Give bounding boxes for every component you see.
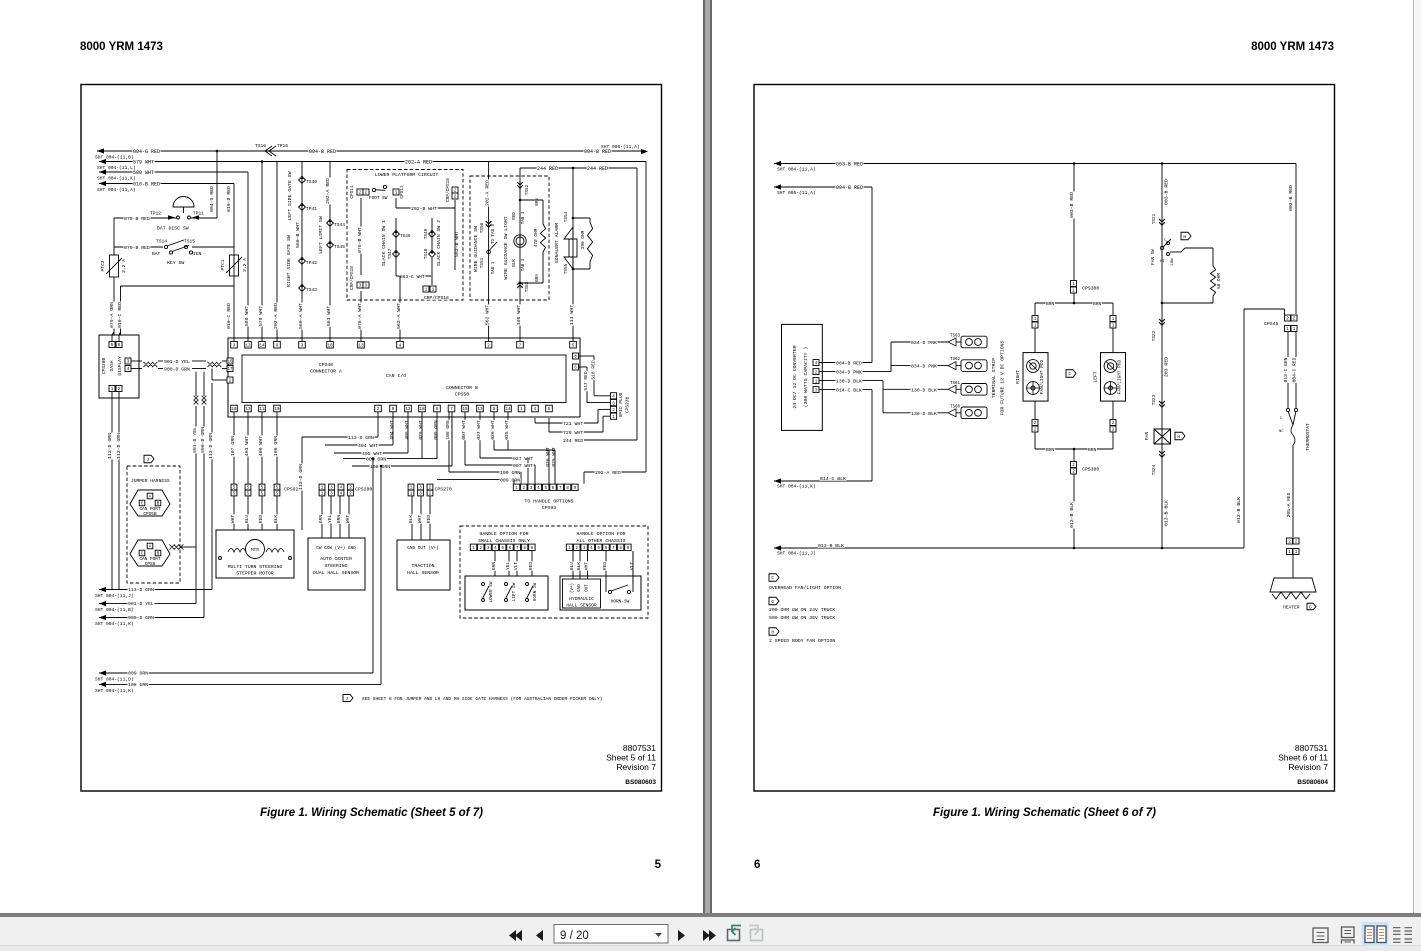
svg-text:STEERING: STEERING	[324, 563, 347, 569]
svg-text:RED: RED	[426, 515, 432, 524]
svg-text:004-B RED: 004-B RED	[836, 361, 862, 367]
svg-text:BLK: BLK	[576, 562, 582, 571]
svg-text:HEATER: HEATER	[1283, 605, 1300, 611]
svg-text:111 WHT: 111 WHT	[569, 305, 575, 325]
svg-text:TS16: TS16	[255, 143, 266, 149]
svg-text:TS23: TS23	[1152, 394, 1157, 405]
svg-text:007 WHT: 007 WHT	[461, 420, 467, 440]
svg-text:SHT 004-(11,D): SHT 004-(11,D)	[95, 677, 134, 683]
svg-text:405 WHT: 405 WHT	[404, 420, 410, 440]
svg-text:TS62: TS62	[950, 358, 961, 362]
svg-text:113-D GRN: 113-D GRN	[348, 435, 374, 441]
svg-text:009 ORN: 009 ORN	[433, 420, 439, 440]
svg-text:LOWER PLATFORM CIRCUIT: LOWER PLATFORM CIRCUIT	[375, 172, 438, 178]
svg-text:PTC2: PTC2	[100, 260, 106, 271]
svg-text:027 WHT: 027 WHT	[476, 420, 482, 440]
svg-text:FAN/LIGHT POD: FAN/LIGHT POD	[1118, 360, 1123, 395]
svg-text:108 GRN: 108 GRN	[445, 420, 451, 440]
svg-text:SHT 005-(11,A): SHT 005-(11,A)	[777, 190, 816, 196]
svg-text:TS22: TS22	[1152, 330, 1157, 341]
svg-text:500 OHM 8W ON 36V TRUCK: 500 OHM 8W ON 36V TRUCK	[769, 615, 835, 621]
svg-text:15: 15	[462, 408, 468, 412]
svg-text:BRN: BRN	[536, 274, 540, 282]
svg-text:561 WHT: 561 WHT	[326, 306, 332, 326]
svg-text:CPS11: CPS11	[400, 185, 405, 199]
svg-text:107 GRN: 107 GRN	[230, 436, 236, 456]
svg-text:202-A RED: 202-A RED	[595, 470, 621, 476]
svg-text:202-A RED: 202-A RED	[325, 178, 331, 204]
svg-text:SLACK CHAIN SW 1: SLACK CHAIN SW 1	[381, 220, 387, 266]
svg-text:079-A ORN: 079-A ORN	[109, 302, 115, 328]
svg-text:405 WHT: 405 WHT	[362, 451, 382, 457]
svg-text:WHT: WHT	[230, 515, 236, 524]
svg-text:HALL SENSOR: HALL SENSOR	[407, 570, 439, 576]
svg-text:2.2 A: 2.2 A	[242, 258, 248, 272]
svg-text:CPS300: CPS300	[1082, 467, 1099, 473]
svg-text:KEY SW: KEY SW	[167, 260, 184, 266]
svg-text:CPS300: CPS300	[1082, 286, 1099, 292]
svg-text:BRN: BRN	[536, 198, 540, 206]
svg-text:50 OHM: 50 OHM	[1217, 273, 1222, 289]
svg-text:TAB 1: TAB 1	[492, 261, 496, 274]
svg-text:AUTO CENTER: AUTO CENTER	[320, 556, 352, 562]
svg-text:014-C BLK: 014-C BLK	[836, 388, 862, 394]
svg-text:RED: RED	[528, 562, 534, 571]
svg-text:401 WHT: 401 WHT	[244, 436, 250, 456]
svg-text:SHT 004-(11,K): SHT 004-(11,K)	[95, 688, 134, 694]
svg-text:TS61: TS61	[950, 382, 961, 386]
svg-text:2.2 A: 2.2 A	[121, 259, 127, 273]
svg-text:580 WHT: 580 WHT	[133, 170, 154, 176]
svg-text:390 OHM: 390 OHM	[581, 230, 586, 249]
svg-text:MULTI TURN STEERING: MULTI TURN STEERING	[228, 564, 283, 570]
svg-text:TS46: TS46	[400, 234, 411, 239]
svg-text:CPS270: CPS270	[435, 487, 452, 493]
svg-text:J: J	[146, 457, 149, 463]
svg-text:720 WHT: 720 WHT	[563, 430, 583, 436]
svg-text:579 WHT: 579 WHT	[258, 306, 264, 326]
svg-text:9 / 20: 9 / 20	[560, 930, 589, 942]
svg-text:TS60: TS60	[950, 405, 961, 409]
svg-text:562 WHT: 562 WHT	[485, 305, 491, 325]
svg-text:SMALL CHASSIS ONLY: SMALL CHASSIS ONLY	[478, 538, 530, 544]
svg-text:TP16: TP16	[277, 143, 288, 149]
svg-text:Revision 7: Revision 7	[616, 762, 656, 772]
svg-text:079-B RED: 079-B RED	[124, 216, 150, 222]
svg-text:YEL: YEL	[505, 562, 511, 571]
svg-text:004-B RED: 004-B RED	[309, 149, 336, 155]
svg-text:CPS11: CPS11	[350, 185, 355, 199]
svg-text:TS43: TS43	[306, 287, 317, 293]
svg-text:SHT 004-(11,B): SHT 004-(11,B)	[95, 607, 134, 613]
svg-text:721 WHT: 721 WHT	[563, 421, 583, 427]
svg-text:009 ORN: 009 ORN	[128, 671, 148, 677]
svg-text:CPS23B: CPS23B	[625, 396, 631, 413]
svg-text:CPS93: CPS93	[542, 505, 557, 511]
svg-text:H: H	[771, 629, 774, 635]
svg-text:2 SPEED BODY FAN OPTION: 2 SPEED BODY FAN OPTION	[769, 638, 835, 644]
svg-text:SHT 004-(11,K): SHT 004-(11,K)	[777, 484, 816, 490]
svg-text:TERMINAL STRIP: TERMINAL STRIP	[991, 358, 997, 398]
svg-text:HORN-SW: HORN-SW	[611, 600, 630, 605]
svg-text:TS47: TS47	[388, 248, 393, 259]
svg-text:TS45: TS45	[334, 244, 345, 250]
svg-text:SHT 006-(11,A): SHT 006-(11,A)	[601, 144, 640, 150]
svg-text:BRN: BRN	[1046, 447, 1055, 453]
svg-text:Sheet 6 of 11: Sheet 6 of 11	[1278, 753, 1328, 763]
svg-text:SHT 004-(11,A): SHT 004-(11,A)	[97, 187, 136, 193]
svg-text:Revision 7: Revision 7	[1288, 762, 1328, 772]
svg-text:MTR: MTR	[251, 548, 259, 553]
svg-text:FOOT SW: FOOT SW	[369, 196, 388, 201]
svg-text:901-D YEL: 901-D YEL	[164, 359, 190, 365]
svg-text:TS48: TS48	[424, 248, 429, 259]
svg-text:013-C GRN: 013-C GRN	[1283, 357, 1289, 382]
svg-text:TO HANDLE OPTIONS: TO HANDLE OPTIONS	[525, 499, 574, 505]
svg-text:025 WHT: 025 WHT	[504, 420, 510, 440]
svg-text:003-B RED: 003-B RED	[1164, 179, 1170, 205]
svg-text:16: 16	[327, 344, 333, 348]
svg-text:SHT 004-(11,K): SHT 004-(11,K)	[95, 621, 134, 627]
svg-text:404 WHT: 404 WHT	[358, 443, 378, 449]
svg-text:TS52: TS52	[525, 184, 530, 195]
svg-text:DISPLAY: DISPLAY	[117, 356, 123, 376]
svg-text:076-B WHT: 076-B WHT	[357, 227, 363, 253]
svg-text:8807531: 8807531	[1295, 743, 1328, 753]
svg-text:RED: RED	[258, 515, 264, 524]
svg-text:TP41: TP41	[306, 206, 317, 212]
svg-text:113-D GRN: 113-D GRN	[208, 433, 214, 459]
svg-text:013-B BLK: 013-B BLK	[818, 543, 844, 549]
svg-text:8807531: 8807531	[623, 743, 656, 753]
svg-text:16: 16	[227, 361, 233, 365]
svg-text:BRN: BRN	[1046, 301, 1055, 307]
svg-text:BLK: BLK	[273, 515, 279, 524]
svg-text:003-B RED: 003-B RED	[1069, 192, 1075, 218]
svg-text:BRN: BRN	[336, 515, 342, 524]
svg-text:LOW: LOW	[1171, 258, 1175, 266]
svg-text:106 GRN: 106 GRN	[273, 436, 279, 456]
svg-text:WHT: WHT	[584, 562, 590, 571]
svg-text:F: F	[771, 575, 774, 581]
svg-text:BLU: BLU	[244, 515, 250, 524]
svg-text:OVERHEAD FAN/LIGHT OPTION: OVERHEAD FAN/LIGHT OPTION	[769, 585, 841, 591]
svg-text:SLACK CHAIN SW 2: SLACK CHAIN SW 2	[436, 220, 442, 266]
svg-text:VLT: VLT	[629, 562, 635, 571]
svg-text:TS50: TS50	[480, 222, 485, 233]
svg-text:130-D BLK: 130-D BLK	[911, 411, 937, 417]
svg-text:003-B RED: 003-B RED	[836, 162, 863, 168]
svg-text:FAN SW: FAN SW	[1151, 249, 1156, 265]
svg-text:TS63: TS63	[950, 335, 961, 339]
svg-text:STEPPER MOTOR: STEPPER MOTOR	[236, 571, 274, 577]
svg-text:11: 11	[259, 408, 265, 412]
svg-text:009 ORN: 009 ORN	[366, 457, 386, 463]
svg-text:12: 12	[405, 408, 411, 412]
svg-text:BAT: BAT	[152, 251, 161, 257]
svg-text:205-A RED: 205-A RED	[1286, 492, 1292, 517]
svg-text:HI: HI	[1160, 260, 1165, 264]
svg-text:BS080603: BS080603	[625, 779, 656, 786]
svg-text:BLU: BLU	[569, 562, 575, 571]
svg-text:560-B WHT: 560-B WHT	[295, 222, 301, 248]
svg-text:CAN I/O: CAN I/O	[386, 373, 406, 379]
svg-text:VLT: VLT	[513, 562, 519, 571]
svg-text:RIGHT: RIGHT	[1015, 370, 1021, 384]
svg-text:TS44: TS44	[334, 222, 345, 228]
svg-text:004-B RED: 004-B RED	[836, 185, 863, 191]
svg-text:100 GRN: 100 GRN	[500, 470, 520, 476]
svg-text:F: F	[1068, 371, 1071, 377]
svg-text:TS15: TS15	[184, 239, 195, 245]
svg-text:18: 18	[231, 408, 237, 412]
svg-text:HORN SW: HORN SW	[533, 582, 538, 601]
svg-text:034-D PNK: 034-D PNK	[911, 364, 937, 370]
svg-text:WHT: WHT	[417, 515, 423, 524]
svg-text:130-D BLK: 130-D BLK	[911, 387, 937, 393]
svg-text:LOWER SW: LOWER SW	[489, 581, 494, 602]
svg-text:TAB 3: TAB 3	[522, 258, 526, 271]
svg-text:LEFT: LEFT	[1093, 371, 1099, 382]
svg-text:109 WHT: 109 WHT	[516, 305, 522, 325]
svg-text:13: 13	[477, 408, 483, 412]
svg-text:900-D GRN: 900-D GRN	[128, 615, 154, 621]
svg-text:901-D YEL: 901-D YEL	[192, 427, 198, 453]
svg-text:113-D GRN: 113-D GRN	[107, 433, 113, 459]
svg-text:004-G RED: 004-G RED	[209, 186, 215, 212]
svg-text:FOR FUTURE 12 V DC OPTIONS: FOR FUTURE 12 V DC OPTIONS	[1000, 340, 1006, 415]
svg-text:JUMPER HARNESS: JUMPER HARNESS	[131, 478, 170, 484]
svg-text:202-A RED: 202-A RED	[405, 160, 432, 166]
svg-text:CW CCW (V+) GND: CW CCW (V+) GND	[316, 546, 356, 551]
svg-text:SHT 004-(11,A): SHT 004-(11,A)	[777, 167, 816, 173]
svg-text:563-C WHT: 563-C WHT	[400, 274, 425, 280]
svg-text:517 RED: 517 RED	[583, 371, 589, 391]
svg-text:076-A WHT: 076-A WHT	[357, 303, 363, 329]
svg-text:14: 14	[505, 408, 511, 412]
svg-text:404 WHT: 404 WHT	[389, 420, 395, 440]
svg-text:010-B RED: 010-B RED	[133, 182, 160, 188]
svg-text:SHT 004-(11,J): SHT 004-(11,J)	[777, 551, 816, 557]
svg-text:108 GRN: 108 GRN	[128, 682, 148, 688]
svg-text:G: G	[1309, 604, 1312, 610]
svg-text:079-B RED: 079-B RED	[124, 245, 150, 251]
svg-text:579 WHT: 579 WHT	[133, 160, 154, 166]
svg-text:470 OHM: 470 OHM	[534, 228, 539, 247]
svg-text:010-C RED: 010-C RED	[117, 302, 123, 328]
svg-text:202-A RED: 202-A RED	[485, 180, 491, 206]
svg-text:560-A WHT: 560-A WHT	[298, 303, 304, 329]
svg-text:CRP/CPS18: CRP/CPS18	[424, 295, 449, 301]
svg-text:029 WHT: 029 WHT	[418, 420, 424, 440]
svg-text:IGN: IGN	[193, 251, 202, 257]
svg-text:518 RED: 518 RED	[591, 360, 597, 380]
svg-text:CONNECTOR B: CONNECTOR B	[446, 385, 478, 391]
svg-text:DASH: DASH	[109, 360, 115, 371]
svg-text:FAN: FAN	[1145, 432, 1150, 440]
svg-text:TP12: TP12	[150, 211, 161, 217]
svg-text:200 OHM 8W ON 24V TRUCK: 200 OHM 8W ON 24V TRUCK	[769, 607, 835, 613]
svg-text:013-B BLK: 013-B BLK	[1069, 502, 1075, 528]
svg-text:901-D YEL: 901-D YEL	[128, 601, 154, 607]
svg-text:580 WHT: 580 WHT	[244, 306, 250, 326]
svg-text:026 WHT: 026 WHT	[490, 420, 496, 440]
svg-text:SHT 004-(11,L): SHT 004-(11,L)	[97, 165, 136, 171]
svg-text:010-D RED: 010-D RED	[226, 186, 232, 212]
svg-text:LIFT SW: LIFT SW	[512, 582, 517, 601]
svg-text:244 RED: 244 RED	[537, 166, 558, 172]
svg-text:H: H	[1177, 434, 1180, 440]
svg-text:PTC1: PTC1	[220, 259, 226, 270]
svg-text:13: 13	[245, 408, 251, 412]
svg-text:14: 14	[259, 344, 265, 348]
svg-text:TS54: TS54	[564, 211, 569, 222]
svg-text:HALL SENSOR: HALL SENSOR	[566, 603, 597, 609]
svg-text:WHT: WHT	[345, 515, 351, 524]
svg-text:(V+): (V+)	[570, 583, 575, 593]
svg-text:TAB 4: TAB 4	[522, 211, 526, 224]
svg-text:CPS20B: CPS20B	[101, 357, 107, 374]
svg-text:010-C RED: 010-C RED	[226, 303, 232, 329]
svg-text:TS40: TS40	[306, 179, 317, 185]
svg-text:(300 WATTS CAPACITY ): (300 WATTS CAPACITY )	[803, 347, 809, 408]
svg-text:900-D GRN: 900-D GRN	[200, 427, 206, 453]
svg-text:TS51: TS51	[480, 257, 485, 268]
svg-text:TS21: TS21	[1152, 213, 1157, 224]
svg-text:BS080604: BS080604	[1297, 779, 1328, 786]
svg-text:004-C RED: 004-C RED	[1292, 357, 1298, 382]
svg-text:400 WHT: 400 WHT	[258, 436, 264, 456]
svg-text:CRP/CPS18: CRP/CPS18	[350, 266, 355, 290]
svg-text:DUAL HALL SENSOR: DUAL HALL SENSOR	[313, 570, 359, 576]
svg-text:014-C BLK: 014-C BLK	[820, 476, 846, 482]
svg-text:013-B BLK: 013-B BLK	[1164, 500, 1170, 526]
svg-text:TS49: TS49	[424, 228, 429, 239]
svg-text:SONALERT ALARM: SONALERT ALARM	[554, 223, 560, 263]
svg-text:900-D GRN: 900-D GRN	[164, 367, 190, 373]
svg-text:SPID PLUG: SPID PLUG	[618, 392, 624, 417]
svg-text:CPS92: CPS92	[284, 487, 299, 493]
svg-text:TS55: TS55	[564, 263, 569, 274]
svg-text:113-D GRN: 113-D GRN	[116, 433, 122, 459]
svg-text:10: 10	[274, 408, 280, 412]
svg-text:CONNECTOR A: CONNECTOR A	[310, 369, 342, 375]
svg-text:CPS200: CPS200	[355, 487, 372, 493]
svg-text:007 WHT: 007 WHT	[513, 463, 533, 469]
svg-text:HANDLE OPTION FOR: HANDLE OPTION FOR	[480, 531, 529, 537]
svg-text:WIRE GUIDANCE SW LIGHT: WIRE GUIDANCE SW LIGHT	[503, 216, 509, 279]
svg-text:C: C	[1280, 417, 1283, 421]
svg-text:RIGHT SIDE GATE SW: RIGHT SIDE GATE SW	[286, 235, 292, 287]
svg-text:GRN: GRN	[318, 515, 324, 524]
svg-text:244 RED: 244 RED	[563, 438, 583, 444]
svg-text:TS14: TS14	[156, 239, 167, 245]
svg-text:RED: RED	[602, 562, 608, 571]
svg-text:BRN: BRN	[1088, 447, 1097, 453]
svg-text:013-B BLK: 013-B BLK	[1236, 497, 1242, 523]
svg-text:113-D GRN: 113-D GRN	[298, 464, 304, 490]
svg-text:12: 12	[245, 344, 251, 348]
svg-text:CRP/CPS18: CRP/CPS18	[446, 178, 451, 202]
svg-text:130-D BLK: 130-D BLK	[836, 379, 862, 385]
svg-text:003-B RED: 003-B RED	[1288, 185, 1294, 211]
svg-text:WIRE GUIDANCE SW: WIRE GUIDANCE SW	[473, 226, 479, 272]
svg-text:009 ORN: 009 ORN	[500, 478, 520, 484]
svg-text:TRACTION: TRACTION	[411, 563, 434, 569]
svg-text:TO TAB 5: TO TAB 5	[492, 223, 496, 244]
svg-text:SEE SHEET 8 FOR JUMPER AND LH: SEE SHEET 8 FOR JUMPER AND LH AND RH SID…	[362, 696, 602, 702]
svg-text:GND: GND	[578, 584, 582, 592]
svg-text:BRN: BRN	[1093, 301, 1102, 307]
svg-text:H: H	[1183, 234, 1186, 240]
svg-text:027 WHT: 027 WHT	[513, 456, 533, 462]
svg-text:SHT 004-(11,B): SHT 004-(11,B)	[95, 155, 134, 161]
svg-text:RED: RED	[513, 212, 517, 220]
svg-text:HYDRAULIC: HYDRAULIC	[569, 596, 594, 602]
svg-text:SHT 004-(11,J): SHT 004-(11,J)	[95, 593, 134, 599]
svg-text:TP42: TP42	[306, 260, 317, 266]
svg-text:CPS5B: CPS5B	[143, 512, 157, 517]
svg-text:NC: NC	[1279, 430, 1284, 434]
svg-text:202-A RED: 202-A RED	[273, 303, 279, 329]
svg-text:OUT: OUT	[586, 584, 590, 592]
svg-text:LEFT SIDE GATE SW: LEFT SIDE GATE SW	[287, 171, 293, 220]
svg-text:24 DC/ 12 DC CONVERTER: 24 DC/ 12 DC CONVERTER	[792, 345, 798, 408]
svg-text:034-D PNK: 034-D PNK	[911, 340, 937, 346]
svg-text:17: 17	[227, 368, 233, 372]
svg-text:CPS6: CPS6	[145, 562, 156, 567]
svg-text:J: J	[345, 696, 348, 702]
svg-text:THERMOSTAT: THERMOSTAT	[1305, 423, 1311, 451]
svg-text:13: 13	[358, 344, 364, 348]
svg-text:YEL: YEL	[327, 515, 333, 524]
svg-text:CPS45: CPS45	[1264, 321, 1279, 327]
svg-text:TS24: TS24	[1152, 464, 1157, 475]
svg-text:Sheet 5 of 11: Sheet 5 of 11	[606, 753, 656, 763]
svg-text:GND OUT (V+): GND OUT (V+)	[407, 546, 439, 551]
svg-text:004-G RED: 004-G RED	[133, 149, 160, 155]
svg-text:202-B WHT: 202-B WHT	[411, 206, 437, 212]
svg-text:18: 18	[419, 408, 425, 412]
svg-text:BAT DISC SW: BAT DISC SW	[157, 226, 189, 232]
svg-text:GRN: GRN	[491, 562, 497, 571]
svg-text:SHT 004-(11,K): SHT 004-(11,K)	[97, 176, 136, 182]
svg-text:HANDLE OPTION FOR: HANDLE OPTION FOR	[577, 531, 626, 537]
svg-text:FAN/LIGHT POD: FAN/LIGHT POD	[1040, 360, 1045, 395]
svg-text:LEFT LIMIT SW: LEFT LIMIT SW	[318, 216, 324, 254]
svg-text:G: G	[771, 599, 774, 605]
svg-text:CPS40: CPS40	[319, 362, 334, 368]
svg-text:BLK: BLK	[513, 259, 517, 267]
svg-text:113-D GRN: 113-D GRN	[128, 587, 154, 593]
svg-text:ALL OTHER CHASSIS: ALL OTHER CHASSIS	[577, 538, 626, 544]
svg-text:203 RED: 203 RED	[1164, 357, 1170, 377]
svg-text:244 RED: 244 RED	[587, 166, 608, 172]
svg-text:BLK: BLK	[408, 515, 414, 524]
svg-text:563-A WHT: 563-A WHT	[396, 303, 402, 329]
svg-text:034-D PNK: 034-D PNK	[836, 370, 862, 376]
svg-text:CPS50: CPS50	[455, 392, 470, 398]
